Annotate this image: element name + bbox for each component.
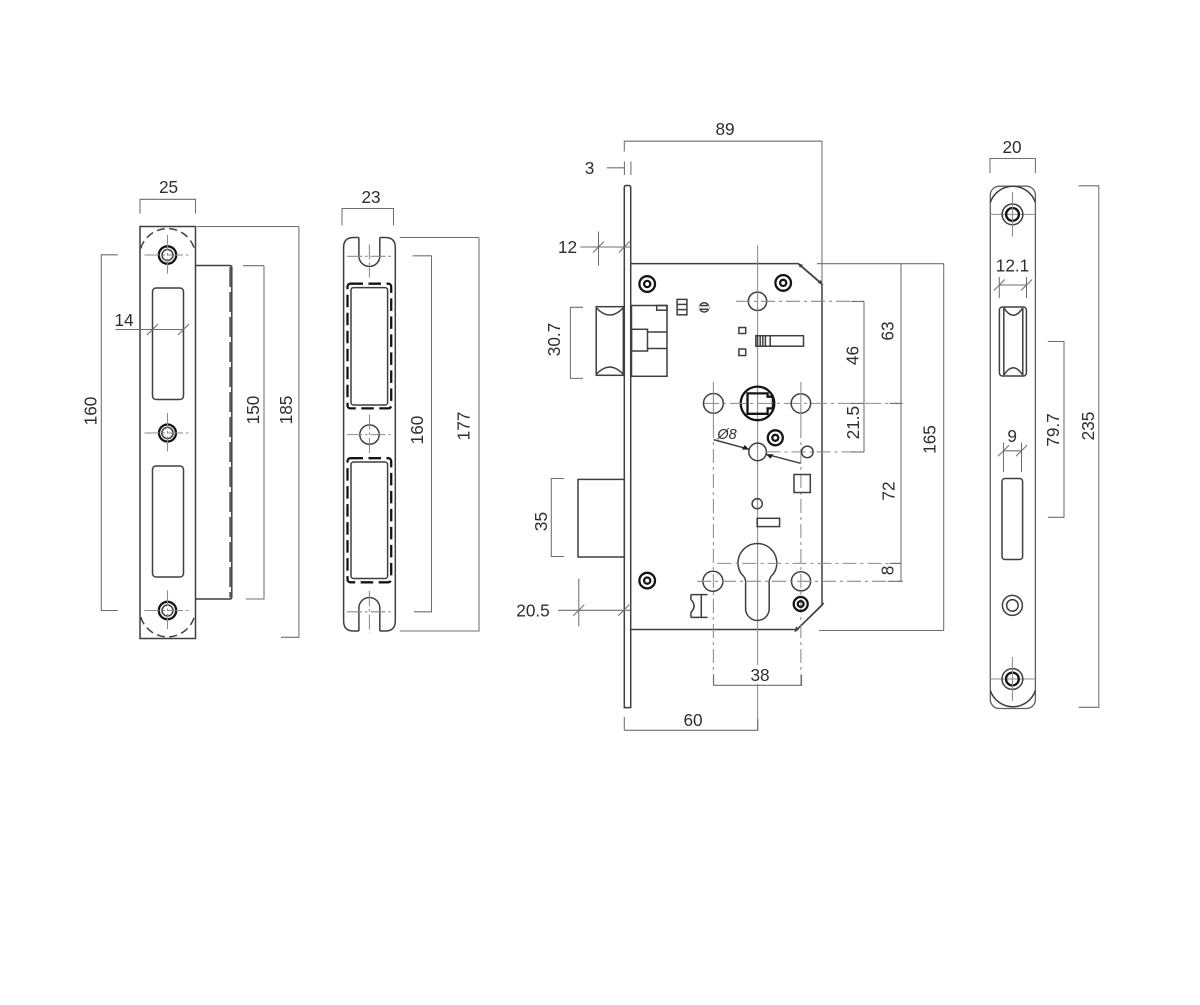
svg-text:177: 177 [454,412,474,441]
top plate section line [990,213,1035,215]
front plate outline [990,186,1035,708]
faceplate edge view [624,186,630,708]
square hole lower right [794,475,810,493]
svg-text:35: 35 [531,512,551,531]
svg-text:12: 12 [558,237,577,257]
dim 150 [243,266,264,599]
small rect part [757,518,779,526]
svg-text:20: 20 [1002,137,1021,157]
bottom screw slot [359,598,380,631]
bottom plate section line [990,678,1035,680]
bottom slot crosshair [347,591,392,633]
spring bar [756,336,804,347]
dim 46 and 21.5 [843,302,864,453]
lower case dashed outline [348,458,392,582]
staple symbol [691,595,708,618]
latch cutout [153,288,184,400]
dim 79.7 [1043,342,1064,518]
svg-text:38: 38 [750,665,769,685]
dim 12.1 [994,256,1032,299]
dashed arc bottom [141,617,195,637]
roller bolt [999,307,1026,376]
upper cutout [351,288,388,405]
deadbolt [578,479,624,557]
slotted pin [699,303,709,312]
G3 lock body view [516,119,943,730]
dia 8 callout [714,427,866,463]
svg-text:3: 3 [585,158,595,178]
dim 3 [585,158,631,178]
svg-text:72: 72 [879,481,899,500]
dim 30.7 [544,307,583,378]
G1 strike plate view [81,177,299,639]
dim 38 [714,665,802,685]
vertical centerline spindle [757,245,759,730]
latch head [596,307,623,376]
small square upper [739,328,746,334]
svg-text:79.7: 79.7 [1043,413,1063,446]
svg-text:23: 23 [361,187,380,207]
svg-text:14: 14 [114,310,134,330]
dim 20.5 [516,579,630,627]
svg-text:9: 9 [1007,426,1017,446]
svg-text:30.7: 30.7 [544,323,564,356]
svg-text:150: 150 [243,396,263,425]
upper case dashed outline [348,284,392,409]
case screw top-left [639,276,655,292]
dim 60 [624,710,758,730]
dim 23 [342,187,394,226]
cylinder centerline [718,562,902,564]
svg-text:235: 235 [1078,412,1098,441]
dim 177 [400,238,479,632]
svg-text:21.5: 21.5 [843,406,863,439]
spindle follower [703,387,903,421]
top hole on centerline [736,292,864,310]
dim 160 right [407,256,432,612]
svg-text:160: 160 [81,397,101,426]
small square lower [739,349,746,356]
bottom screw arc [990,691,1035,707]
stacked squares part [677,299,687,314]
svg-text:165: 165 [920,425,940,454]
top screw slot [359,238,380,267]
fix hole right [791,572,810,591]
top slot crosshair [347,245,392,278]
fix holes centerline [697,580,903,582]
case screw bottom-right [794,597,808,611]
svg-text:89: 89 [715,119,734,139]
svg-text:8: 8 [878,566,898,576]
svg-text:185: 185 [276,396,296,425]
bolt cutout [153,466,184,577]
screw near follower [768,430,783,445]
dim 12 [558,232,630,266]
lock case outline [631,264,822,630]
hub hole right [791,382,810,685]
dim 20 [990,137,1035,173]
dim 14 [114,310,189,335]
svg-text:20.5: 20.5 [516,601,549,621]
dim 63 72 8 [878,264,901,582]
dim 165 [920,264,944,631]
bottom screw [1002,657,1023,701]
right extension lines [817,264,944,631]
dim 235 [1078,186,1099,708]
strike plate body [140,227,196,639]
dim 89 [624,119,822,282]
screw hole top [145,235,191,275]
small hole right [802,446,814,458]
G4 front plate view [990,137,1099,709]
euro cylinder hole [738,543,777,620]
dim 160 left [81,255,118,611]
bottom chamfer leader [795,603,824,632]
dim 35 [531,479,564,557]
svg-text:25: 25 [159,177,178,197]
svg-text:12.1: 12.1 [996,256,1029,276]
screw hole bottom [145,591,191,631]
dashed arc top [141,229,195,249]
top screw [1002,192,1023,237]
fix hole left [703,571,723,591]
case screw top-right [775,275,791,291]
dim 25 [140,177,196,214]
faceplate outline [344,238,396,632]
small pin hole [752,499,762,509]
lower cutout [1002,479,1023,560]
middle hole [347,415,392,456]
svg-text:63: 63 [878,321,898,340]
svg-text:160: 160 [407,416,427,445]
cylinder screw hole [1002,595,1022,615]
screw hole middle [145,413,191,453]
G2 faceplate view [342,187,479,633]
case screw bottom-left [639,573,655,589]
top screw arc [990,186,1035,202]
svg-text:60: 60 [683,710,702,730]
top chamfer leader [798,263,824,285]
hub hole left [704,382,724,685]
dim 185 [197,227,299,638]
svg-text:46: 46 [843,346,863,365]
lip bend line [229,267,231,598]
dim 9 [998,426,1027,472]
latch body inside case [632,306,668,377]
strike plate lip [196,266,232,600]
lower cutout [351,462,388,579]
